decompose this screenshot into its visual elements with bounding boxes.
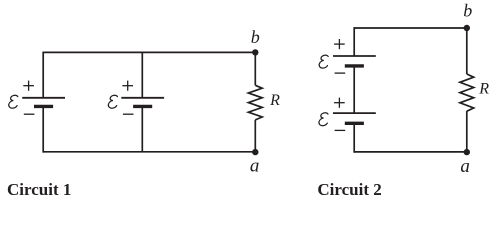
node b junction dot (circuit 1) [252,49,258,55]
battery EMF3 (circuit 2 top): short thick plate (-) [345,64,364,67]
battery EMF2 (circuit 1 middle): plus sign [122,81,133,91]
wire: circuit 1 right branch lower segment [254,120,256,152]
battery EMF3 (circuit 2 top): script-E (EMF) label [319,55,328,68]
wire: circuit 1 top rail b-node to left corner [43,51,255,53]
battery EMF3 (circuit 2 top): plus sign [334,39,345,49]
svg-text:Circuit 2: Circuit 2 [317,180,381,199]
battery EMF1 (circuit 1 left): minus sign [24,113,35,115]
node a junction dot (circuit 2) [464,149,470,155]
wire: circuit 1 left branch lower segment [42,106,44,152]
resistor R (circuit 1) (zigzag) [248,85,262,120]
battery EMF2 (circuit 1 middle): minus sign [123,113,134,115]
node b junction dot (circuit 2) [464,25,470,31]
wire: circuit 1 left branch upper segment [42,52,44,98]
wire: circuit 2 right branch upper segment [466,28,468,74]
wire: circuit 1 right branch upper segment [254,52,256,85]
node a junction dot (circuit 1) [252,149,258,155]
battery EMF1 (circuit 1 left): script-E (EMF) label [9,95,18,108]
wire: circuit 1 middle branch upper segment [141,52,143,97]
svg-text:b: b [463,1,472,21]
battery EMF1 (circuit 1 left): plus sign [23,81,34,91]
battery EMF2 (circuit 1 middle): short thick plate (-) [133,105,152,108]
wire: circuit 2 left branch middle segment [353,66,355,113]
wire: circuit 1 middle branch lower segment [141,106,143,151]
svg-text:b: b [251,27,260,47]
svg-text:a: a [250,156,260,177]
battery EMF4 (circuit 2 bottom): long plate (+) [333,112,376,114]
resistor R (circuit 2) (zigzag) [460,74,474,111]
svg-text:R: R [478,81,489,98]
battery EMF4 (circuit 2 bottom): minus sign [335,129,346,131]
battery EMF4 (circuit 2 bottom): short thick plate (-) [345,122,364,125]
battery EMF4 (circuit 2 bottom): plus sign [334,98,345,108]
battery EMF4 (circuit 2 bottom): script-E (EMF) label [319,113,328,126]
battery EMF3 (circuit 2 top): minus sign [335,72,346,74]
wire: circuit 2 right branch lower segment [466,111,468,152]
battery EMF1 (circuit 1 left): long plate (+) [22,97,65,99]
wire: circuit 2 left branch lower segment [353,123,355,152]
wire: circuit 2 top rail [354,27,467,29]
battery EMF1 (circuit 1 left): short thick plate (-) [34,105,53,108]
wire: circuit 2 bottom rail [354,151,467,153]
battery EMF2 (circuit 1 middle): script-E (EMF) label [108,95,117,108]
battery EMF2 (circuit 1 middle): long plate (+) [121,97,164,99]
wire: circuit 2 left branch upper segment [353,27,355,56]
svg-text:a: a [460,156,470,177]
battery EMF3 (circuit 2 top): long plate (+) [333,55,376,57]
svg-text:R: R [269,92,280,109]
svg-text:Circuit 1: Circuit 1 [7,180,71,199]
wire: circuit 1 bottom rail a-node to left corner [43,151,255,153]
